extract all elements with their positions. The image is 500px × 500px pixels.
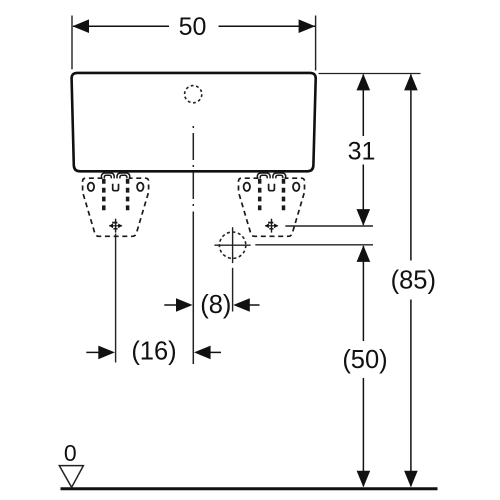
dimension 50: line right segment xyxy=(219,25,316,27)
svg-text:(16): (16) xyxy=(131,338,176,366)
tap hole (dashed circle) xyxy=(185,86,202,103)
center line solid lower part xyxy=(192,212,194,365)
svg-text:50: 50 xyxy=(179,13,207,41)
svg-text:31: 31 xyxy=(348,137,376,165)
dimension (50): line lower segment xyxy=(362,378,364,486)
top right extension line xyxy=(319,73,421,75)
right bracket U clip xyxy=(269,184,275,191)
drain crosshair horizontal xyxy=(214,244,250,246)
dimension (8): left tail line xyxy=(164,304,179,306)
dimension (85): bottom arrowhead xyxy=(404,471,418,488)
dimension (16): left arrowhead xyxy=(98,346,115,360)
dimension 31: line upper segment xyxy=(362,75,364,137)
dimension 50: line left segment xyxy=(73,25,169,27)
datum triangle xyxy=(59,466,83,488)
right bracket dashed trapezoid outline xyxy=(239,178,305,236)
dimension 50: right extension line xyxy=(315,16,317,71)
svg-text:(50): (50) xyxy=(342,346,387,374)
left bracket clamp bar left (thick dashed) xyxy=(102,179,106,211)
dimension (16): left tail line xyxy=(86,351,101,353)
dimension 50: left extension line xyxy=(71,16,73,70)
right bracket right oval slot xyxy=(293,183,299,191)
dimension (8): left arrowhead xyxy=(176,298,193,312)
right bracket clamp bar left (thick dashed) xyxy=(258,179,262,211)
drain dashed circle xyxy=(219,232,245,258)
dimension (8): right arrowhead xyxy=(233,298,250,312)
right bracket fixing point symbol xyxy=(265,219,279,233)
dimension 31: bottom arrowhead xyxy=(357,209,371,226)
dimension 31: line lower segment xyxy=(362,165,364,225)
dimension (85): line lower segment xyxy=(410,300,412,487)
svg-text:0: 0 xyxy=(64,440,77,466)
right bracket group xyxy=(239,173,305,236)
fixing level reference line xyxy=(285,225,373,227)
left bracket right oval slot xyxy=(137,183,143,191)
vertical center line (dash-dot) xyxy=(192,126,194,206)
svg-text:(8): (8) xyxy=(200,291,231,319)
dimension (50): top arrowhead xyxy=(357,245,371,262)
drain crosshair vertical xyxy=(232,227,234,263)
left bracket group xyxy=(83,173,149,236)
dimension (8): right tail line xyxy=(247,304,260,306)
washbasin body outline xyxy=(72,73,316,171)
dimension (50): line upper segment xyxy=(362,246,364,341)
left bracket left oval slot xyxy=(88,183,94,191)
drain extension line down xyxy=(232,268,234,312)
drain level reference line xyxy=(255,244,373,246)
dimension (16): right tail line xyxy=(208,351,221,353)
left bracket fixing point symbol xyxy=(109,219,123,233)
left bracket dashed trapezoid outline xyxy=(83,178,149,236)
svg-text:(85): (85) xyxy=(391,267,436,295)
dimension (85): top arrowhead xyxy=(404,74,418,91)
right bracket left oval slot xyxy=(244,183,250,191)
dimension 31: top arrowhead xyxy=(357,74,371,91)
floor line xyxy=(61,487,438,490)
dimension 50: right arrowhead xyxy=(299,19,316,33)
right bracket spring ears xyxy=(257,173,270,179)
left bracket spring ears xyxy=(101,173,114,179)
left bracket center extension line xyxy=(115,234,117,363)
dimension (16): right arrowhead xyxy=(194,346,211,360)
left bracket U clip xyxy=(113,184,119,191)
dimension (85): line upper segment xyxy=(410,75,412,261)
left bracket clamp bar right (thick dashed) xyxy=(126,179,130,211)
right bracket clamp bar right (thick dashed) xyxy=(282,179,286,211)
dimension 50: left arrowhead xyxy=(72,19,89,33)
dimension (50): bottom arrowhead xyxy=(357,471,371,488)
